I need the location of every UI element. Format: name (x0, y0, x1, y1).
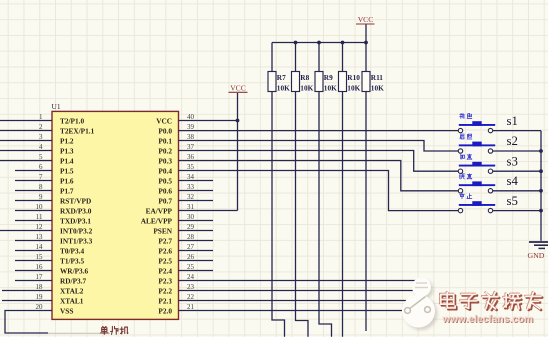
svg-text:28: 28 (187, 233, 195, 241)
svg-text:22: 22 (187, 293, 195, 301)
svg-text:5: 5 (39, 153, 43, 161)
svg-text:U1: U1 (52, 102, 61, 111)
svg-text:VSS: VSS (60, 306, 73, 315)
svg-text:RD/P3.7: RD/P3.7 (60, 276, 86, 285)
svg-text:P0.0: P0.0 (158, 126, 172, 135)
svg-text:P2.5: P2.5 (158, 256, 172, 265)
svg-text:10K: 10K (300, 83, 313, 92)
svg-text:9: 9 (39, 193, 43, 201)
svg-text:s1: s1 (507, 114, 518, 128)
svg-text:T2EX/P1.1: T2EX/P1.1 (60, 126, 95, 135)
svg-text:16: 16 (36, 263, 44, 271)
svg-text:INT0/P3.2: INT0/P3.2 (60, 226, 93, 235)
svg-text:36: 36 (187, 153, 195, 161)
svg-text:33: 33 (187, 183, 195, 191)
svg-text:P0.5: P0.5 (158, 176, 172, 185)
svg-text:34: 34 (187, 173, 195, 181)
svg-text:s4: s4 (507, 174, 519, 188)
svg-text:P0.7: P0.7 (158, 196, 172, 205)
svg-text:8: 8 (39, 183, 43, 191)
svg-text:3: 3 (39, 133, 43, 141)
svg-text:INT1/P3.3: INT1/P3.3 (60, 236, 93, 245)
svg-text:40: 40 (187, 113, 195, 121)
svg-text:7: 7 (39, 173, 43, 181)
svg-text:6: 6 (39, 163, 43, 171)
svg-text:1: 1 (39, 113, 43, 121)
svg-text:27: 27 (187, 243, 195, 251)
svg-text:13: 13 (36, 233, 44, 241)
svg-text:s2: s2 (507, 134, 518, 148)
svg-text:29: 29 (187, 223, 195, 231)
svg-text:18: 18 (36, 283, 44, 291)
svg-text:31: 31 (187, 203, 195, 211)
svg-text:PSEN: PSEN (153, 226, 172, 235)
svg-text:24: 24 (187, 273, 195, 281)
svg-text:P2.1: P2.1 (158, 296, 172, 305)
svg-text:15: 15 (36, 253, 44, 261)
svg-text:T1/P3.5: T1/P3.5 (60, 256, 84, 265)
svg-text:P1.2: P1.2 (60, 136, 74, 145)
svg-text:35: 35 (187, 163, 195, 171)
svg-text:ALE/VPP: ALE/VPP (141, 216, 173, 225)
svg-text:P1.5: P1.5 (60, 166, 74, 175)
svg-text:R8: R8 (300, 73, 309, 82)
svg-text:P1.7: P1.7 (60, 186, 74, 195)
svg-text:TXD/P3.1: TXD/P3.1 (60, 216, 91, 225)
svg-text:P2.7: P2.7 (158, 236, 172, 245)
svg-text:10K: 10K (324, 83, 337, 92)
svg-text:RXD/P3.0: RXD/P3.0 (60, 206, 92, 215)
svg-text:P0.2: P0.2 (158, 146, 172, 155)
svg-text:T2/P1.0: T2/P1.0 (60, 116, 84, 125)
svg-text:VCC: VCC (230, 83, 246, 92)
svg-text:P1.4: P1.4 (60, 156, 74, 165)
svg-text:XTAL2: XTAL2 (60, 286, 84, 295)
svg-text:R7: R7 (277, 73, 286, 82)
svg-text:26: 26 (187, 253, 195, 261)
svg-text:10K: 10K (347, 83, 360, 92)
svg-text:39: 39 (187, 123, 195, 131)
svg-text:P2.3: P2.3 (158, 276, 172, 285)
svg-text:WR/P3.6: WR/P3.6 (60, 266, 89, 275)
svg-text:10K: 10K (277, 83, 290, 92)
svg-text:10K: 10K (371, 83, 384, 92)
svg-text:17: 17 (36, 273, 44, 281)
svg-text:T0/P3.4: T0/P3.4 (60, 246, 84, 255)
svg-text:R11: R11 (371, 73, 384, 82)
svg-text:P1.6: P1.6 (60, 176, 74, 185)
svg-text:37: 37 (187, 143, 195, 151)
svg-text:P2.4: P2.4 (158, 266, 172, 275)
svg-text:P1.3: P1.3 (60, 146, 74, 155)
svg-text:23: 23 (187, 283, 195, 291)
svg-text:R9: R9 (324, 73, 333, 82)
svg-text:www.elecfans.com: www.elecfans.com (441, 314, 533, 325)
svg-text:21: 21 (187, 303, 195, 311)
svg-text:s5: s5 (507, 194, 518, 208)
svg-text:14: 14 (36, 243, 44, 251)
svg-text:30: 30 (187, 213, 195, 221)
svg-text:32: 32 (187, 193, 195, 201)
svg-text:EA/VPP: EA/VPP (146, 206, 173, 215)
svg-text:RST/VPD: RST/VPD (60, 196, 91, 205)
svg-text:P2.0: P2.0 (158, 306, 172, 315)
svg-text:P0.6: P0.6 (158, 186, 172, 195)
svg-text:38: 38 (187, 133, 195, 141)
svg-text:VCC: VCC (156, 116, 172, 125)
svg-text:25: 25 (187, 263, 195, 271)
svg-text:R10: R10 (347, 73, 360, 82)
svg-text:P0.3: P0.3 (158, 156, 172, 165)
svg-text:P0.4: P0.4 (158, 166, 172, 175)
svg-text:P0.1: P0.1 (158, 136, 172, 145)
svg-text:VCC: VCC (358, 15, 374, 24)
svg-text:20: 20 (36, 303, 44, 311)
svg-text:GND: GND (528, 251, 545, 260)
svg-text:19: 19 (36, 293, 44, 301)
svg-text:P2.6: P2.6 (158, 246, 172, 255)
svg-text:11: 11 (36, 213, 43, 221)
svg-text:P2.2: P2.2 (158, 286, 172, 295)
svg-text:2: 2 (39, 123, 43, 131)
svg-text:12: 12 (36, 223, 44, 231)
svg-text:10: 10 (36, 203, 44, 211)
svg-text:4: 4 (39, 143, 43, 151)
svg-text:s3: s3 (507, 154, 518, 168)
svg-text:XTAL1: XTAL1 (60, 296, 84, 305)
